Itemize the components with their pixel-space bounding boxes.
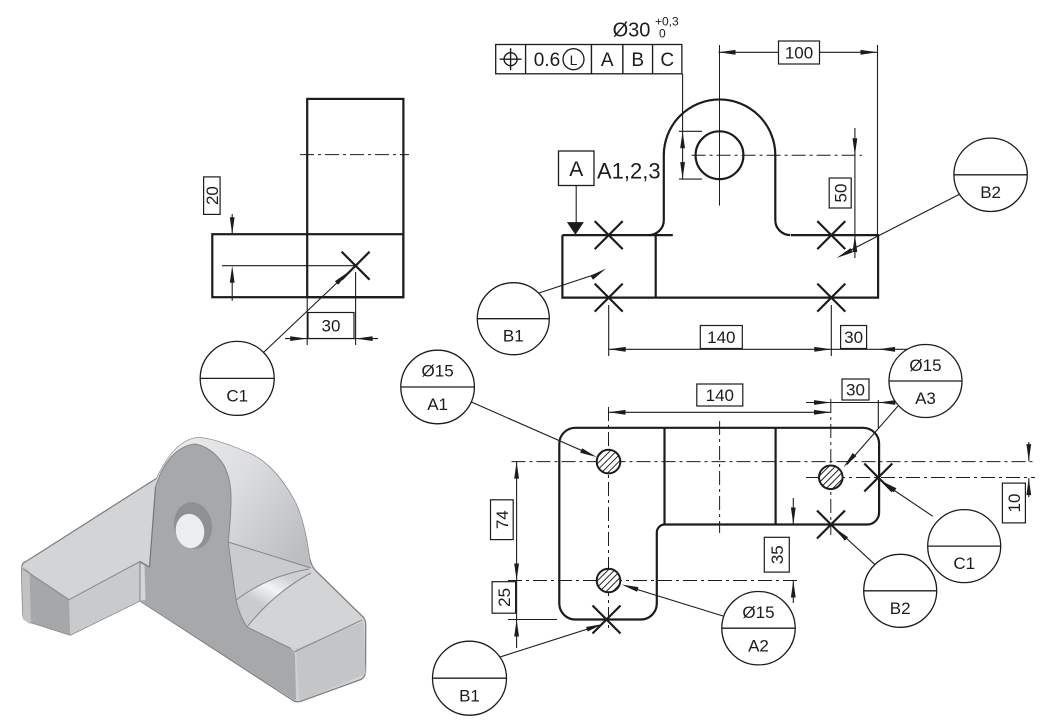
svg-text:C1: C1 bbox=[953, 554, 975, 573]
svg-text:L: L bbox=[570, 52, 578, 68]
edge lines bbox=[23, 444, 362, 652]
svg-text:30: 30 bbox=[846, 381, 865, 400]
FCF leader to hole dim bbox=[682, 74, 684, 179]
dim 140 top arrow left bbox=[609, 410, 626, 415]
svg-text:C: C bbox=[660, 50, 674, 71]
dim 30 top arrow left-pointing bbox=[878, 400, 895, 405]
svg-text:140: 140 bbox=[707, 328, 735, 347]
front view: step edge bbox=[655, 235, 657, 298]
front view: hole bbox=[696, 131, 744, 179]
datum target B2 top (front view) bbox=[817, 221, 845, 249]
plate and base front face bbox=[140, 444, 296, 701]
svg-text:Ø15: Ø15 bbox=[422, 362, 454, 381]
dim 140 top bbox=[609, 411, 832, 413]
dimension 30 extension lines bbox=[306, 297, 308, 345]
datum target C1 (top view) bbox=[864, 464, 892, 492]
fillet flare band bbox=[236, 569, 311, 627]
dim 25 arrow up bbox=[514, 620, 519, 637]
hole inner highlight bbox=[173, 512, 207, 551]
svg-text:25: 25 bbox=[495, 588, 514, 607]
leader B1 top arrow bbox=[586, 624, 603, 632]
datum target balloon B2 (top) bbox=[864, 554, 937, 627]
tip corner band bbox=[22, 566, 31, 625]
front arm tip end face bbox=[23, 569, 70, 635]
dim 35 arrow up bbox=[791, 581, 796, 598]
svg-text:B: B bbox=[631, 50, 644, 71]
svg-text:0.6: 0.6 bbox=[534, 50, 560, 71]
top view: L-shaped outline bbox=[559, 428, 879, 620]
datum target area A3 bbox=[819, 466, 843, 490]
svg-text:0: 0 bbox=[659, 27, 666, 41]
dim 50 arrow down bbox=[853, 138, 858, 155]
dim 50 bbox=[854, 128, 856, 258]
leader C1 bbox=[264, 279, 342, 353]
front view: base outline bbox=[562, 235, 878, 298]
svg-text:A: A bbox=[569, 158, 583, 181]
front view: dome with fillets bbox=[649, 99, 791, 235]
dim 35 box bbox=[764, 537, 789, 572]
part silhouette / top faces bbox=[22, 438, 366, 702]
dim 25 bbox=[516, 581, 518, 649]
datum feature symbol A bbox=[559, 151, 595, 235]
dia30 dim arrow down bbox=[680, 162, 685, 179]
dim 74 arrow down bbox=[514, 564, 519, 581]
datum target point (front view bottom right) bbox=[817, 284, 845, 312]
right arm end face bbox=[293, 622, 366, 702]
svg-text:Ø15: Ø15 bbox=[909, 356, 941, 375]
datum target balloon B1 (front) bbox=[477, 283, 549, 355]
svg-text:B1: B1 bbox=[503, 326, 524, 345]
notch concave fillet band bbox=[140, 563, 146, 601]
svg-text:A1,2,3: A1,2,3 bbox=[597, 159, 661, 184]
svg-text:B2: B2 bbox=[890, 599, 911, 618]
dim 30 box bbox=[308, 313, 354, 339]
dim 10 bbox=[1028, 442, 1030, 461]
dim 100 arrow right bbox=[861, 50, 878, 55]
dia30 dim arrow up bbox=[680, 131, 685, 148]
datum target balloon A3 bbox=[889, 345, 962, 418]
dim 140 box top bbox=[697, 384, 743, 406]
dimension 20 extension line bbox=[222, 265, 356, 267]
leader C1 arrow bbox=[335, 272, 349, 285]
leader C1 top arrow bbox=[881, 481, 896, 493]
svg-text:50: 50 bbox=[831, 184, 850, 203]
svg-text:A2: A2 bbox=[748, 636, 769, 655]
leader A1 arrow bbox=[580, 448, 597, 457]
dim 140 top arrow right bbox=[814, 410, 831, 415]
dim 30 arrow bbox=[878, 347, 895, 352]
datum target point (front view bottom left) bbox=[595, 284, 623, 312]
dim 50 arrow up bbox=[853, 235, 858, 252]
hole bore bbox=[170, 499, 216, 552]
svg-text:B1: B1 bbox=[459, 686, 480, 705]
svg-text:Ø15: Ø15 bbox=[742, 603, 774, 622]
datum target area A2 bbox=[597, 569, 621, 593]
dim 74 box bbox=[491, 500, 514, 540]
svg-text:140: 140 bbox=[706, 386, 734, 405]
dim 140 arrow right bbox=[814, 347, 831, 352]
dim 30 box top bbox=[842, 379, 869, 400]
dim 20 box bbox=[203, 177, 222, 215]
side view: vertical plate rectangle bbox=[307, 99, 403, 297]
dim 30 arrow right bbox=[290, 336, 307, 341]
dim 30 top arrow right-pointing bbox=[814, 400, 831, 405]
svg-text:30: 30 bbox=[322, 317, 341, 336]
A3 vertical centerline bbox=[830, 399, 832, 535]
datum target B1 top (front view) bbox=[595, 221, 623, 249]
datum target balloon A1 bbox=[401, 350, 475, 424]
L modifier circle bbox=[563, 49, 584, 70]
dim 140 arrow left bbox=[609, 347, 626, 352]
A3 horizontal centerline bbox=[806, 477, 1035, 479]
dim 100 arrow left bbox=[719, 50, 736, 55]
dim 50 box bbox=[829, 178, 851, 208]
feature control frame bbox=[496, 45, 682, 74]
leader A2 arrow bbox=[622, 585, 639, 592]
dim 140 front bbox=[608, 305, 610, 356]
dim 74 arrow up bbox=[514, 462, 519, 479]
datum target balloon C1 bbox=[200, 341, 274, 415]
plate right flat face bbox=[228, 542, 311, 600]
dim 10 box bbox=[1002, 483, 1025, 523]
datum target B2 (top view) bbox=[817, 511, 845, 539]
svg-text:A3: A3 bbox=[915, 389, 936, 408]
svg-text:30: 30 bbox=[844, 328, 863, 347]
dome cylindrical surface bbox=[156, 438, 312, 569]
dim 30 box front bbox=[841, 326, 867, 349]
dim 30 arrow left bbox=[356, 336, 373, 341]
top view: plate footprint edges bbox=[663, 428, 665, 525]
svg-text:74: 74 bbox=[493, 510, 512, 529]
right arm front corner band bbox=[288, 647, 300, 702]
svg-text:A1: A1 bbox=[427, 395, 448, 414]
dim 140 box front bbox=[700, 326, 742, 349]
datum target B1 (top view) bbox=[593, 606, 621, 634]
dim 25 box bbox=[492, 582, 515, 614]
dim 10 arrow up bbox=[1026, 478, 1031, 495]
datum target balloon B1 (top) bbox=[433, 641, 507, 715]
svg-text:35: 35 bbox=[768, 545, 787, 564]
dim 20 arrow up bbox=[230, 266, 235, 283]
leader A3 arrow bbox=[843, 453, 856, 467]
A2 horizontal centerline bbox=[508, 580, 801, 582]
leader B1 arrow bbox=[590, 269, 606, 280]
front arm side face bbox=[69, 562, 140, 636]
svg-text:C1: C1 bbox=[226, 387, 248, 406]
svg-text:A: A bbox=[601, 50, 614, 71]
svg-text:B2: B2 bbox=[980, 183, 1001, 202]
dim 10 arrow down bbox=[1026, 444, 1031, 461]
datum target balloon C1 (top) bbox=[928, 510, 1001, 583]
hole axis centerline (top view) bbox=[719, 421, 721, 533]
dim 20 arrow down bbox=[230, 217, 235, 234]
leader B2 top arrow bbox=[834, 528, 848, 541]
datum target area A1 bbox=[597, 450, 621, 474]
A1 horizontal centerline bbox=[512, 461, 1036, 463]
datum target point C1 (side view) bbox=[342, 252, 370, 280]
datum target balloon B2 (front) bbox=[954, 138, 1027, 211]
svg-text:20: 20 bbox=[203, 186, 222, 205]
dim 74 bbox=[516, 462, 518, 581]
side view: base rectangle bbox=[212, 234, 403, 297]
hole vertical centerline bbox=[719, 45, 721, 206]
datum target balloon A2 bbox=[722, 592, 795, 665]
A1-A2 vertical centerline bbox=[608, 407, 610, 632]
dim 100 box bbox=[779, 41, 820, 64]
svg-text:Ø30: Ø30 bbox=[613, 20, 651, 42]
dim 100 bbox=[877, 45, 879, 235]
dim 30 top bbox=[877, 400, 879, 428]
side view hole centerline bbox=[300, 154, 409, 156]
hole horizontal centerline bbox=[692, 154, 862, 156]
dim 35 bbox=[792, 498, 794, 525]
leader B2 arrow bbox=[837, 248, 853, 258]
position symbol bbox=[500, 48, 522, 70]
svg-text:100: 100 bbox=[785, 44, 813, 63]
svg-text:10: 10 bbox=[1005, 494, 1024, 513]
dim 35 arrow down bbox=[791, 508, 796, 525]
